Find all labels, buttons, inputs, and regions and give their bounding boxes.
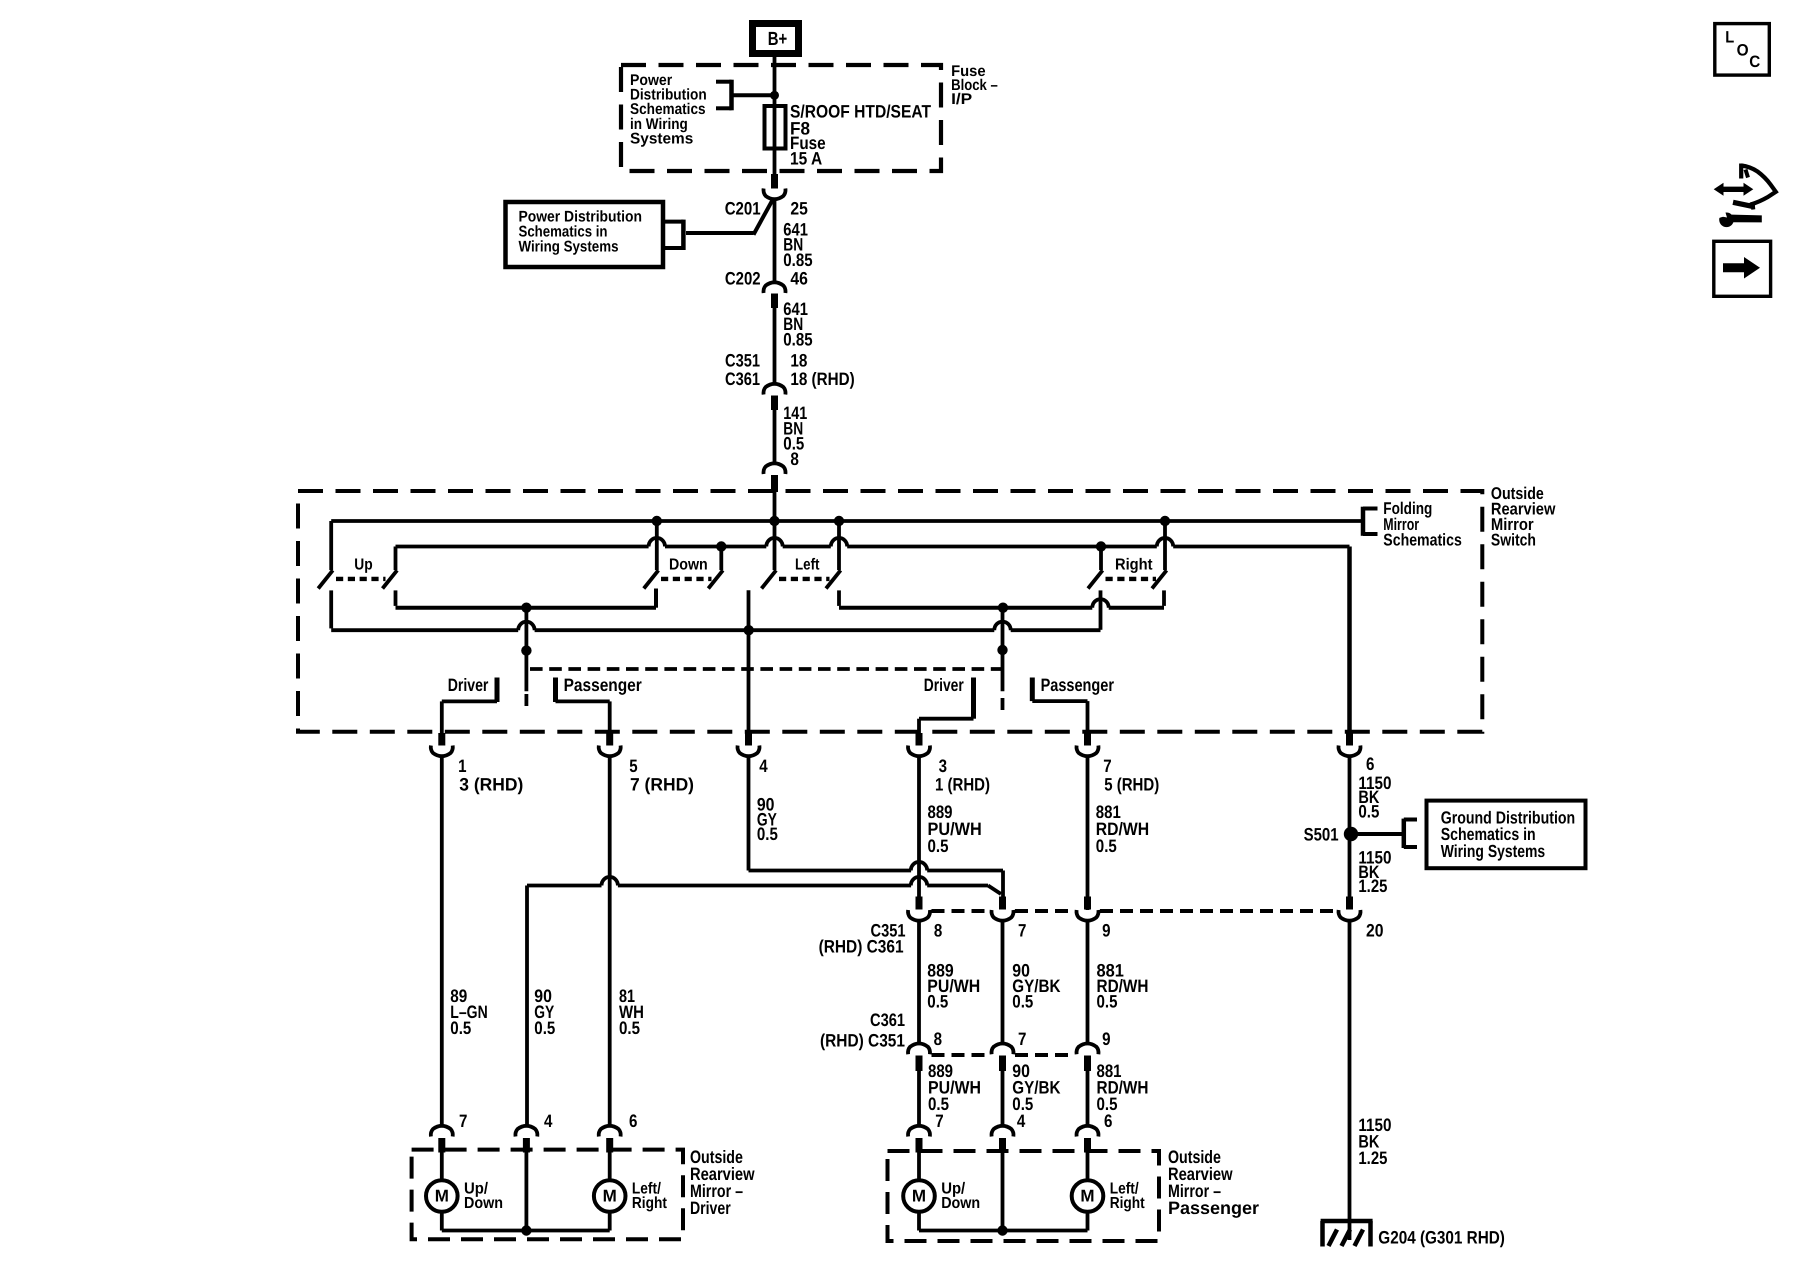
- svg-text:Systems: Systems: [630, 130, 693, 147]
- svg-text:0.5: 0.5: [619, 1018, 640, 1038]
- svg-text:8: 8: [934, 1029, 942, 1049]
- svg-text:M: M: [435, 1187, 449, 1206]
- svg-text:C361: C361: [870, 1010, 905, 1030]
- svg-text:1.25: 1.25: [1358, 1148, 1387, 1168]
- svg-text:1 (RHD): 1 (RHD): [935, 774, 990, 794]
- svg-text:0.5: 0.5: [757, 824, 778, 844]
- svg-text:I/P: I/P: [951, 91, 972, 108]
- svg-text:Right: Right: [632, 1195, 668, 1212]
- svg-text:25: 25: [790, 198, 808, 218]
- svg-text:Up: Up: [354, 557, 373, 574]
- svg-text:Passenger: Passenger: [564, 675, 642, 695]
- svg-text:Right: Right: [1110, 1195, 1146, 1212]
- svg-text:O: O: [1737, 42, 1749, 60]
- svg-text:7: 7: [935, 1111, 943, 1131]
- svg-text:9: 9: [1102, 1029, 1110, 1049]
- svg-text:0.5: 0.5: [534, 1018, 555, 1038]
- svg-text:3 (RHD): 3 (RHD): [459, 774, 523, 794]
- svg-text:6: 6: [1366, 754, 1374, 774]
- svg-text:0.5: 0.5: [927, 992, 948, 1012]
- svg-text:0.5: 0.5: [1358, 801, 1379, 821]
- svg-text:M: M: [603, 1187, 617, 1206]
- svg-text:Wiring Systems: Wiring Systems: [1441, 841, 1546, 861]
- svg-text:8: 8: [790, 449, 799, 469]
- svg-text:Passenger: Passenger: [1168, 1198, 1259, 1218]
- svg-text:C361: C361: [725, 369, 760, 389]
- svg-text:4: 4: [759, 756, 767, 776]
- svg-text:Switch: Switch: [1491, 530, 1536, 549]
- svg-text:Driver: Driver: [924, 675, 964, 695]
- svg-text:C201: C201: [725, 198, 761, 218]
- svg-text:0.5: 0.5: [928, 836, 949, 856]
- svg-text:3: 3: [939, 756, 947, 776]
- svg-text:(RHD) C361: (RHD) C361: [819, 936, 904, 956]
- svg-text:C351: C351: [725, 351, 760, 371]
- svg-text:5: 5: [629, 756, 637, 776]
- svg-text:Down: Down: [941, 1195, 980, 1212]
- svg-text:20: 20: [1366, 920, 1384, 940]
- svg-text:Driver: Driver: [448, 675, 489, 695]
- svg-text:6: 6: [1104, 1111, 1112, 1131]
- svg-text:S501: S501: [1304, 824, 1339, 844]
- svg-text:7: 7: [1103, 756, 1111, 776]
- svg-text:Down: Down: [669, 557, 708, 574]
- svg-text:Wiring Systems: Wiring Systems: [519, 239, 619, 256]
- svg-text:M: M: [912, 1187, 926, 1206]
- svg-text:M: M: [1080, 1187, 1094, 1206]
- svg-text:18 (RHD): 18 (RHD): [790, 369, 854, 389]
- svg-text:B+: B+: [768, 29, 788, 50]
- svg-text:Passenger: Passenger: [1041, 675, 1114, 695]
- svg-text:7 (RHD): 7 (RHD): [630, 774, 694, 794]
- svg-text:0.85: 0.85: [783, 329, 812, 349]
- svg-text:L: L: [1725, 29, 1734, 47]
- svg-text:4: 4: [1017, 1111, 1025, 1131]
- svg-text:8: 8: [934, 920, 942, 940]
- svg-text:1.25: 1.25: [1358, 876, 1387, 896]
- svg-text:Left: Left: [795, 557, 820, 574]
- svg-text:7: 7: [1018, 1029, 1026, 1049]
- svg-text:Down: Down: [464, 1195, 503, 1212]
- svg-text:Driver: Driver: [690, 1198, 731, 1218]
- svg-text:9: 9: [1102, 920, 1110, 940]
- svg-text:7: 7: [459, 1111, 467, 1131]
- svg-text:5 (RHD): 5 (RHD): [1104, 774, 1159, 794]
- svg-text:1: 1: [458, 756, 466, 776]
- svg-text:0.5: 0.5: [1012, 992, 1033, 1012]
- svg-text:0.5: 0.5: [1097, 992, 1118, 1012]
- svg-text:0.5: 0.5: [1096, 836, 1117, 856]
- svg-text:4: 4: [544, 1111, 552, 1131]
- svg-text:6: 6: [629, 1111, 637, 1131]
- svg-text:0.5: 0.5: [450, 1018, 471, 1038]
- svg-text:18: 18: [790, 351, 807, 371]
- svg-text:G204 (G301 RHD): G204 (G301 RHD): [1378, 1227, 1505, 1247]
- svg-text:7: 7: [1018, 920, 1026, 940]
- svg-text:S/ROOF HTD/SEAT: S/ROOF HTD/SEAT: [790, 101, 931, 121]
- svg-text:C: C: [1749, 53, 1760, 71]
- svg-text:46: 46: [790, 269, 808, 289]
- svg-text:15 A: 15 A: [790, 149, 822, 169]
- svg-text:C202: C202: [725, 269, 761, 289]
- svg-text:0.85: 0.85: [783, 250, 812, 270]
- svg-text:Schematics: Schematics: [1383, 531, 1462, 550]
- svg-text:(RHD) C351: (RHD) C351: [820, 1031, 905, 1051]
- svg-text:Right: Right: [1115, 557, 1153, 574]
